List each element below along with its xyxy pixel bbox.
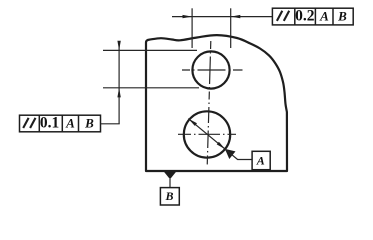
arrow top-left [183,15,193,18]
svg-text:A: A [319,9,329,24]
arrow diameter upper-left [188,119,197,126]
leader FCF left [101,123,120,125]
dimension line top [172,16,272,18]
part outline [146,35,287,171]
hole bottom [184,111,230,157]
extension line left of top dim [191,8,193,48]
svg-text:B: B [337,9,347,24]
FCF top frame [272,8,353,25]
hole top [192,51,229,88]
centerline vertical common [207,41,211,166]
svg-text:B: B [164,189,173,203]
svg-text:A: A [256,153,265,167]
parallel symbol top [277,11,289,21]
FCF left frame [20,115,101,132]
datum A box [252,151,270,169]
dimension line left vertical [118,42,120,124]
leader to datum B [169,179,171,188]
svg-text:A: A [65,116,75,131]
arrow left-bottom (up) [117,88,120,98]
leader to datum A [225,149,252,160]
extension line upper left dim [103,49,197,51]
datum B box [160,188,179,205]
datum A triangle [225,149,236,159]
centerline horizontal bottom hole [178,133,238,135]
arrow diameter lower-right [217,142,225,149]
arrow top-right [231,15,241,18]
svg-text:0.1: 0.1 [40,115,59,132]
svg-text:0.2: 0.2 [295,8,315,25]
arrow left-top (down) [117,41,120,51]
datum B triangle [164,171,177,179]
diameter line bottom hole [188,119,225,150]
extension line lower left dim [103,87,199,89]
centerline horizontal top hole [182,69,243,71]
parallel symbol left [23,118,35,128]
extension line right of top dim [230,8,232,48]
svg-text:B: B [84,116,94,131]
